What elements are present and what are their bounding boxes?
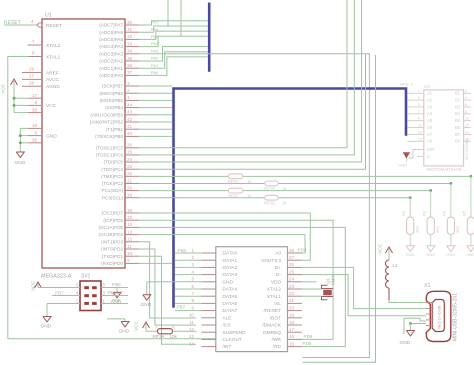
svg-text:31: 31	[127, 27, 133, 32]
svg-text:(ADC2)PA2: (ADC2)PA2	[99, 59, 123, 64]
U1 right pins PB7-PB0	[90, 81, 140, 139]
svg-text:R4: R4	[442, 210, 447, 216]
wire PA4 to bus	[139, 36, 208, 46]
svg-text:/CS: /CS	[222, 323, 230, 329]
svg-text:AGND: AGND	[46, 84, 60, 90]
svg-text:(ADC7)PA7: (ADC7)PA7	[99, 23, 123, 28]
svg-text:B2: B2	[455, 97, 461, 102]
svg-text:DATA5: DATA5	[222, 294, 237, 300]
svg-text:VCC: VCC	[378, 243, 384, 254]
wire SV1 pin3 RESET	[101, 290, 128, 295]
svg-text:2: 2	[191, 255, 194, 260]
svg-text:(MISO)PB6: (MISO)PB6	[100, 91, 124, 96]
svg-text:R2: R2	[401, 210, 406, 216]
svg-text:MINI-USB-32005-201: MINI-USB-32005-201	[453, 293, 459, 341]
resistor RP2B 1k	[264, 181, 287, 191]
svg-text:23: 23	[127, 164, 133, 169]
svg-text:5: 5	[418, 103, 420, 107]
svg-text:MEGA323-A: MEGA323-A	[41, 274, 72, 280]
svg-text:(OC2)PD7: (OC2)PD7	[102, 211, 124, 216]
svg-text:R3: R3	[422, 210, 427, 216]
wire PA7 to bus	[139, 20, 208, 25]
svg-text:MM-08SMD: MM-08SMD	[464, 139, 469, 160]
svg-text:B6: B6	[455, 125, 461, 130]
svg-text:(INT0)PD2: (INT0)PD2	[101, 247, 123, 252]
wire PC7 up to top edge	[139, 0, 347, 148]
svg-text:R5: R5	[462, 210, 467, 216]
wire PD3 to U2 ALE	[139, 242, 196, 318]
svg-text:VB D- D+ ID GN: VB D- D+ ID GN	[437, 305, 441, 329]
U2 left pins 1-14	[189, 248, 246, 350]
wire PA2 to bus	[139, 47, 208, 61]
svg-text:21: 21	[289, 298, 295, 303]
led/ground symbol under U3	[398, 152, 410, 167]
connector U3 (faded)	[424, 84, 469, 172]
svg-text:XTAL1: XTAL1	[267, 294, 282, 300]
svg-text:42: 42	[127, 117, 133, 122]
svg-text:16: 16	[127, 208, 133, 213]
svg-text:16: 16	[289, 334, 295, 339]
svg-text:10: 10	[127, 251, 133, 256]
wire PC6 up to top edge	[139, 0, 354, 155]
svg-text:22: 22	[127, 171, 133, 176]
svg-text:GND: GND	[222, 279, 233, 285]
svg-text:36: 36	[127, 63, 133, 68]
wire PB7 to SV1	[52, 291, 80, 296]
U2 right pins 28-15	[261, 248, 302, 350]
U3 pin D/R	[417, 147, 434, 152]
U1 left pin RESET (4)	[28, 19, 62, 29]
connector SV1	[76, 274, 105, 311]
svg-text:(TCK)PC2: (TCK)PC2	[102, 181, 124, 186]
wire VCC pins	[13, 97, 28, 113]
wire PD0 into bus	[139, 262, 172, 264]
svg-text:(AIN1/OC0)PB3: (AIN1/OC0)PB3	[90, 112, 123, 117]
svg-text:10: 10	[189, 313, 195, 318]
wire PA1 to bus	[139, 52, 208, 68]
svg-text:B1: B1	[455, 91, 461, 96]
resistor R5 390	[462, 210, 474, 234]
svg-text:A6: A6	[427, 125, 433, 130]
svg-text:(SCK)PB7: (SCK)PB7	[102, 84, 124, 89]
U1 left pin AVCC (27)	[22, 73, 60, 83]
net label RESET	[4, 20, 36, 26]
svg-text:25: 25	[127, 150, 133, 155]
U1 right pins PC7-PC0	[96, 143, 140, 201]
svg-text:SUSPEND: SUSPEND	[222, 330, 246, 336]
svg-text:RESET: RESET	[108, 290, 124, 295]
svg-text:(INT1)PD3: (INT1)PD3	[101, 239, 123, 244]
svg-text:10: 10	[465, 117, 469, 121]
svg-text:GND: GND	[46, 133, 57, 139]
svg-text:PD4: PD4	[298, 248, 307, 253]
svg-text:DATA3: DATA3	[222, 272, 237, 278]
crystal Q1 6MHz	[302, 274, 336, 300]
svg-text:B7: B7	[455, 132, 461, 137]
svg-text:9: 9	[418, 117, 420, 121]
svg-text:(RXD)PD0: (RXD)PD0	[101, 261, 123, 266]
wire PC5 up to top edge	[139, 0, 361, 162]
svg-text:11: 11	[189, 320, 194, 325]
svg-text:PB7: PB7	[55, 291, 64, 296]
svg-text:B8: B8	[455, 139, 461, 144]
svg-text:/BOT: /BOT	[270, 315, 281, 321]
wire PD2 to U2 /CS	[139, 249, 196, 325]
svg-text:1: 1	[127, 95, 130, 100]
svg-text:GND: GND	[406, 252, 415, 257]
resistor RP1A 10k	[153, 323, 197, 338]
svg-text:13: 13	[127, 229, 133, 234]
ground GND with stub near ALE	[107, 319, 130, 335]
svg-text:/RESET: /RESET	[264, 308, 281, 314]
wire PA3 to bus	[139, 48, 369, 357]
wire PC0 to LED R2	[139, 196, 411, 217]
U1 left pin AGND (28)	[22, 80, 60, 90]
svg-text:XTAL1: XTAL1	[46, 54, 61, 60]
svg-text:10k: 10k	[170, 334, 178, 339]
svg-text:A3: A3	[427, 104, 433, 109]
svg-text:B3: B3	[455, 104, 461, 109]
svg-text:/XL: /XL	[274, 301, 282, 307]
wire PC4 up to PA3 line	[139, 54, 365, 169]
wire PC2 to LED R4	[139, 182, 452, 217]
U1 left pins VCC (17,5,38)	[28, 93, 57, 113]
svg-text:(OC1B)PD4: (OC1B)PD4	[98, 232, 123, 237]
svg-text:GND: GND	[426, 252, 435, 257]
svg-text:15: 15	[418, 137, 422, 141]
svg-text:(ADC6)PA6: (ADC6)PA6	[99, 30, 123, 35]
wire D- to USB	[302, 275, 426, 316]
svg-text:6MHz: 6MHz	[331, 274, 336, 285]
ground GND below U1	[15, 152, 26, 166]
svg-text:RP2D: RP2D	[264, 201, 275, 206]
svg-text:RP2C: RP2C	[228, 194, 239, 199]
wire USB pin4 stub	[404, 318, 426, 334]
wire L1 to USB VB	[389, 300, 426, 303]
svg-text:(SS)PB4: (SS)PB4	[105, 105, 123, 110]
svg-text:A2: A2	[427, 97, 433, 102]
svg-text:(AIN0/INT2)PB2: (AIN0/INT2)PB2	[90, 120, 124, 125]
svg-text:(TMS)PC3: (TMS)PC3	[101, 174, 123, 179]
inductor L1	[386, 260, 399, 300]
svg-text:GND: GND	[119, 328, 130, 334]
svg-text:RP2B: RP2B	[264, 186, 275, 191]
svg-text:27: 27	[289, 255, 295, 260]
U1 left pins GND (18,6,39)	[28, 123, 58, 143]
svg-text:8: 8	[191, 298, 194, 303]
svg-text:8: 8	[465, 110, 467, 114]
resistor RP2D 1k	[264, 195, 287, 205]
svg-text:U3: U3	[424, 84, 430, 89]
ground GND under R5	[466, 235, 474, 258]
svg-text:/INT: /INT	[222, 344, 231, 350]
svg-text:17: 17	[32, 93, 38, 98]
svg-text:5: 5	[34, 100, 37, 105]
svg-text:6: 6	[465, 103, 467, 107]
svg-text:A0: A0	[275, 251, 281, 257]
svg-text:14: 14	[465, 130, 469, 134]
svg-text:RESET: RESET	[46, 23, 62, 29]
svg-text:39: 39	[32, 138, 38, 143]
svg-text:PB6: PB6	[112, 282, 121, 287]
svg-text:A1: A1	[427, 91, 433, 96]
svg-text:DATA4: DATA4	[222, 287, 237, 293]
svg-text:(ADC5)PA5: (ADC5)PA5	[99, 37, 123, 42]
svg-text:6: 6	[191, 284, 194, 289]
wires PB7-PB0 to bus	[139, 86, 172, 136]
resistor R2 390	[401, 210, 419, 234]
svg-text:23: 23	[289, 284, 295, 289]
svg-text:390: 390	[435, 226, 440, 233]
svg-text:2: 2	[127, 88, 130, 93]
svg-text:PB7: PB7	[177, 305, 186, 310]
svg-text:(ADC1)PA1: (ADC1)PA1	[99, 66, 123, 71]
svg-text:/RD: /RD	[273, 344, 282, 350]
svg-text:GND: GND	[398, 163, 407, 168]
svg-text:(TOSC2)PC7: (TOSC2)PC7	[96, 145, 124, 150]
svg-text:44: 44	[127, 102, 133, 107]
svg-text:34: 34	[127, 49, 133, 54]
svg-text:U1: U1	[45, 13, 52, 19]
wire XTAL1 to CLKOUT rail	[8, 57, 216, 339]
svg-text:43: 43	[127, 110, 133, 115]
wire PA0 to bus	[139, 0, 208, 75]
svg-text:PA2: PA2	[151, 56, 159, 61]
wire GND pins	[19, 128, 28, 152]
svg-text:(TXD)PD1: (TXD)PD1	[102, 254, 124, 259]
resistor R4 390	[442, 210, 460, 234]
svg-text:GND: GND	[15, 160, 26, 166]
svg-text:5: 5	[191, 277, 194, 282]
svg-text:/WR: /WR	[272, 337, 282, 343]
svg-text:30: 30	[127, 20, 133, 25]
svg-text:390: 390	[455, 226, 460, 233]
svg-text:ALE: ALE	[222, 315, 231, 321]
wire PD4 to U2 /RD	[139, 227, 345, 346]
U1 right pins PA7-PA0	[99, 20, 139, 78]
svg-text:20: 20	[289, 305, 295, 310]
wire PC3 to LED R5	[139, 175, 472, 217]
svg-text:18: 18	[32, 123, 38, 128]
svg-text:PA0: PA0	[151, 70, 159, 75]
svg-text:1: 1	[191, 248, 194, 253]
supply VCC arrow at RP1A	[134, 320, 158, 331]
wire PD1 to U2 /INT	[139, 256, 196, 344]
svg-text:19: 19	[289, 313, 295, 318]
bus B2 (PB data bus)	[174, 89, 407, 308]
wire D+ to USB	[302, 267, 426, 308]
svg-text:8: 8	[32, 51, 35, 56]
svg-text:L1: L1	[393, 263, 399, 268]
wire PD5 to U2 VOUT	[139, 213, 310, 260]
svg-text:PD5: PD5	[303, 341, 312, 346]
svg-text:4: 4	[31, 19, 34, 24]
svg-text:(ICP)PD6: (ICP)PD6	[103, 218, 123, 223]
svg-text:GND: GND	[400, 340, 411, 346]
U3 right pins B1-B8	[455, 89, 471, 143]
svg-text:32: 32	[127, 34, 133, 39]
svg-text:PB5: PB5	[112, 298, 121, 303]
svg-text:GND: GND	[41, 323, 52, 329]
svg-text:A7: A7	[427, 132, 433, 137]
ground GND under R3	[426, 235, 435, 258]
svg-text:24: 24	[127, 157, 133, 162]
svg-text:DATA1: DATA1	[222, 258, 237, 264]
svg-text:3: 3	[418, 96, 420, 100]
resistor RP2C 1k	[228, 188, 252, 198]
svg-text:GND: GND	[466, 252, 474, 257]
svg-text:15: 15	[289, 341, 295, 346]
ground GND at U2 pin5	[141, 282, 202, 308]
svg-text:DATA2: DATA2	[222, 265, 237, 271]
svg-text:12: 12	[127, 237, 133, 242]
svg-text:DATA6: DATA6	[222, 301, 237, 307]
svg-text:MMC 1: MMC 1	[400, 81, 414, 86]
svg-text:14: 14	[127, 222, 133, 227]
svg-text:A8: A8	[427, 139, 433, 144]
bus entry wires U2 DATA pins	[175, 253, 201, 311]
svg-text:D-: D-	[276, 272, 281, 278]
svg-text:(T1)PB1: (T1)PB1	[106, 127, 124, 132]
svg-text:(TOSC1)PC6: (TOSC1)PC6	[96, 153, 124, 158]
svg-text:1: 1	[418, 89, 420, 93]
U1 left pin XTAL1 (8)	[28, 51, 61, 61]
svg-text:D+: D+	[275, 265, 281, 271]
wire SV1 pin1 PB5	[101, 298, 128, 303]
svg-text:11: 11	[127, 244, 132, 249]
svg-text:XTAL2: XTAL2	[267, 287, 282, 293]
svg-text:(ADC3)PA3: (ADC3)PA3	[99, 51, 123, 56]
resistor R3 390	[422, 210, 440, 234]
svg-text:RP2A: RP2A	[228, 179, 239, 184]
svg-text:PB0: PB0	[178, 248, 187, 253]
wire PA6 to bus	[139, 26, 208, 32]
svg-text:GND: GND	[141, 302, 152, 308]
svg-text:24: 24	[289, 277, 295, 282]
svg-text:B4: B4	[455, 111, 461, 116]
svg-text:PA1: PA1	[151, 63, 159, 68]
svg-text:(ADC0)PA0: (ADC0)PA0	[99, 73, 123, 78]
U1 right pins PD7-PD0	[98, 208, 139, 266]
svg-text:SV1: SV1	[81, 274, 91, 280]
supply VCC arrow at SV1	[31, 280, 81, 291]
svg-text:20: 20	[127, 185, 133, 190]
svg-text:12: 12	[465, 124, 469, 128]
svg-text:(ADC4)PA4: (ADC4)PA4	[99, 44, 123, 49]
svg-text:28: 28	[289, 248, 295, 253]
svg-text:(OC1A)PD5: (OC1A)PD5	[98, 225, 123, 230]
svg-text:41: 41	[127, 124, 133, 129]
svg-text:GND: GND	[446, 252, 455, 257]
svg-text:9: 9	[191, 305, 194, 310]
svg-text:7: 7	[32, 39, 35, 44]
svg-text:2: 2	[465, 89, 467, 93]
svg-text:29: 29	[29, 67, 35, 72]
wire VDD to VCC node	[302, 281, 317, 283]
svg-text:13: 13	[418, 130, 422, 134]
svg-text:XTAL2: XTAL2	[46, 43, 61, 49]
svg-text:PD6: PD6	[304, 334, 313, 339]
svg-text:4: 4	[191, 269, 194, 274]
svg-text:14: 14	[189, 341, 195, 346]
ic U1 MEGA323-A	[41, 13, 125, 280]
supply VCC arrow U1	[1, 79, 18, 113]
bus B1 vertical	[208, 3, 211, 72]
svg-text:22: 22	[289, 291, 295, 296]
U1 left pin AREF (29)	[22, 67, 59, 77]
wire PD7 to U2 A0	[139, 235, 305, 253]
resistor RP2A 1k	[228, 174, 252, 184]
svg-text:9: 9	[127, 258, 130, 263]
U1 left pin XTAL2 (7)	[28, 39, 61, 49]
svg-text:4: 4	[465, 96, 467, 100]
svg-text:CLKOUT: CLKOUT	[222, 337, 242, 343]
svg-text:B5: B5	[455, 118, 461, 123]
svg-text:19: 19	[127, 193, 133, 198]
wire SV1 pin2 to GND	[41, 304, 81, 330]
svg-text:X1: X1	[424, 283, 430, 289]
svg-text:VCC: VCC	[1, 83, 7, 94]
svg-text:MICROMATCH-08: MICROMATCH-08	[427, 167, 462, 172]
wire PA5 to bus	[139, 31, 208, 39]
svg-text:6: 6	[34, 130, 37, 135]
svg-text:RP1A: RP1A	[153, 334, 166, 339]
svg-text:VOUT3.3: VOUT3.3	[261, 258, 281, 264]
svg-text:40: 40	[127, 131, 133, 136]
svg-text:DATA7: DATA7	[222, 308, 237, 314]
svg-text:VCC: VCC	[134, 320, 140, 331]
ground GND under R2	[406, 235, 415, 258]
ic U2 USB controller	[216, 247, 288, 352]
svg-text:28: 28	[29, 80, 35, 85]
svg-text:21: 21	[127, 178, 133, 183]
svg-text:16: 16	[465, 137, 469, 141]
svg-text:PC1(SDA): PC1(SDA)	[102, 188, 124, 193]
svg-text:33: 33	[127, 41, 133, 46]
svg-text:DATA0: DATA0	[222, 251, 237, 257]
svg-text:(TDO)PC4: (TDO)PC4	[101, 167, 123, 172]
svg-text:37: 37	[127, 70, 133, 75]
svg-text:A5: A5	[427, 118, 433, 123]
connector X1 MINI-USB	[424, 283, 458, 342]
svg-text:PA3: PA3	[151, 48, 159, 53]
svg-text:7: 7	[191, 291, 194, 296]
wires bus B2 to U3	[407, 93, 417, 141]
wire U3 D/R tie	[409, 150, 417, 159]
svg-text:11: 11	[418, 124, 422, 128]
svg-text:26: 26	[289, 262, 295, 267]
svg-text:15: 15	[127, 215, 133, 220]
ground GND under R4	[446, 235, 455, 258]
svg-text:(MOSI)PB5: (MOSI)PB5	[100, 98, 124, 103]
svg-text:(TDI)PC5: (TDI)PC5	[104, 160, 124, 165]
wire aux vertical near USB	[303, 55, 376, 362]
supply VCC arrow at L1	[378, 243, 393, 260]
svg-text:18: 18	[289, 320, 295, 325]
svg-text:7: 7	[418, 110, 420, 114]
svg-text:26: 26	[127, 143, 133, 148]
svg-text:25: 25	[289, 269, 295, 274]
svg-text:3: 3	[127, 81, 130, 86]
svg-text:/DMACK: /DMACK	[262, 323, 281, 329]
svg-text:AREF: AREF	[46, 70, 59, 76]
svg-text:VDD: VDD	[271, 279, 282, 285]
svg-text:D/R: D/R	[427, 147, 434, 152]
U3 pin C	[417, 154, 430, 159]
U3 left pins A1-A8	[417, 89, 433, 143]
svg-text:DMREQ: DMREQ	[263, 330, 281, 336]
svg-text:AVCC: AVCC	[46, 77, 60, 83]
